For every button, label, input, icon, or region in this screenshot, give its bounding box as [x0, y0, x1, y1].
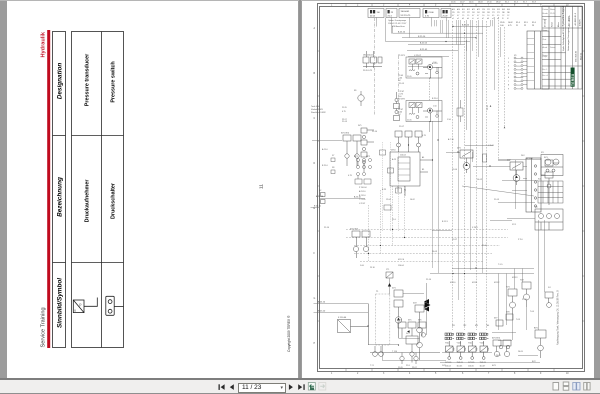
svg-text:Bezeichnung: Bezeichnung — [57, 177, 64, 217]
mid band extras — [465, 146, 493, 163]
svg-text:4: 4 — [508, 69, 509, 71]
svg-text:G: G — [314, 298, 316, 300]
svg-text:2: 2 — [508, 62, 509, 64]
svg-text:12.05: 12.05 — [500, 22, 505, 24]
pump link — [429, 78, 431, 101]
svg-text:8: 8 — [514, 373, 516, 375]
frame tick labels bottom — [331, 373, 569, 375]
svg-text:Ers. f.: Ers. f. — [543, 68, 548, 71]
svg-text:110.04.01: 110.04.01 — [401, 11, 411, 13]
svg-text:2: 2 — [357, 373, 359, 375]
svg-text:X5: X5 — [535, 207, 538, 209]
svg-text:14.02: 14.02 — [508, 22, 513, 24]
svg-text:1.00: 1.00 — [500, 25, 504, 27]
svg-text:X 24.0: X 24.0 — [472, 227, 479, 229]
svg-text:P 110.04: P 110.04 — [359, 187, 366, 189]
terminal box X1 — [527, 31, 549, 89]
wires to blocks — [498, 160, 541, 219]
svg-text:B: B — [314, 73, 316, 75]
svg-text:22.07: 22.07 — [412, 367, 417, 369]
left connector at wire 198 — [321, 193, 326, 204]
svg-text:Blatt 11: Blatt 11 — [579, 52, 582, 60]
svg-text:d7: d7 — [482, 18, 484, 20]
svg-text:TEREX: TEREX — [571, 73, 575, 86]
lower-left valve group — [352, 231, 370, 258]
svg-text:T 110: T 110 — [392, 351, 398, 353]
svg-text:K 110.04: K 110.04 — [338, 317, 347, 319]
svg-text:25.10: 25.10 — [370, 267, 375, 269]
svg-text:A 25.10: A 25.10 — [462, 24, 470, 27]
svg-text:S2: S2 — [319, 190, 321, 192]
svg-text:f3: f3 — [502, 18, 503, 20]
central manifold complex — [390, 131, 432, 196]
svg-text:Sinnbild/Symbol: Sinnbild/Symbol — [57, 278, 64, 328]
svg-text:Norm: Norm — [543, 29, 548, 32]
svg-text:X8: X8 — [332, 167, 334, 169]
svg-text:Urspr.: Urspr. — [543, 55, 549, 58]
junction dots central — [368, 144, 433, 254]
svg-text:9V1: 9V1 — [544, 157, 548, 159]
svg-text:X1.3: X1.3 — [514, 2, 518, 4]
svg-text:P 2.0: P 2.0 — [518, 239, 524, 241]
svg-text:25.09: 25.09 — [443, 16, 449, 18]
svg-text:21: 21 — [516, 25, 518, 27]
svg-text:M 110: M 110 — [450, 282, 456, 284]
first page button — [219, 384, 305, 390]
svg-text:24.01: 24.01 — [469, 2, 474, 4]
svg-text:7: 7 — [488, 373, 490, 375]
svg-text:1.50: 1.50 — [447, 119, 452, 121]
svg-text:A26: A26 — [457, 8, 460, 11]
title block — [542, 6, 582, 89]
svg-text:110.04: 110.04 — [400, 155, 406, 157]
svg-text:6V4: 6V4 — [398, 320, 401, 322]
svg-text:X1: X1 — [514, 55, 517, 57]
svg-text:D: D — [314, 163, 316, 165]
svg-text:A 25.10: A 25.10 — [354, 195, 362, 198]
svg-text:2V10: 2V10 — [391, 150, 395, 152]
svg-text:Datum: Datum — [543, 8, 549, 11]
svg-text:X1.5: X1.5 — [524, 22, 528, 24]
svg-text:1.2: 1.2 — [507, 15, 509, 17]
pump stubs to left labels — [399, 75, 405, 116]
svg-text:B 11.3: B 11.3 — [442, 221, 449, 223]
svg-text:280: 280 — [502, 12, 505, 14]
svg-text:AC 100/4L: AC 100/4L — [568, 15, 571, 27]
svg-text:A71: A71 — [472, 8, 475, 11]
svg-text:Copyright 2009 TEREX ®: Copyright 2009 TEREX ® — [287, 315, 291, 352]
svg-text:T1: T1 — [376, 291, 379, 293]
svg-text:6: 6 — [508, 77, 509, 79]
svg-text:A72: A72 — [477, 8, 480, 11]
svg-text:e1: e1 — [492, 18, 494, 20]
svg-text:D-8275: D-8275 — [580, 19, 582, 26]
svg-text:A 21.0: A 21.0 — [322, 148, 329, 151]
svg-text:7V2: 7V2 — [520, 280, 525, 282]
svg-text:14.02: 14.02 — [477, 179, 483, 181]
dashed vertical connectors into band — [369, 186, 405, 262]
svg-text:21.05: 21.05 — [494, 199, 500, 201]
svg-text:5: 5 — [435, 373, 437, 375]
internal rows in X1 box — [527, 39, 534, 81]
prev page button — [230, 384, 234, 390]
svg-text:21.06: 21.06 — [429, 12, 435, 14]
svg-text:M 111: M 111 — [472, 282, 478, 284]
scattered wire labels — [342, 62, 551, 367]
svg-text:B 25.10: B 25.10 — [418, 36, 426, 38]
svg-text:M1: M1 — [452, 325, 456, 327]
layout icon: continuous — [563, 382, 569, 390]
layout icon: continuous facing — [584, 383, 590, 391]
svg-text:A: A — [314, 27, 316, 30]
svg-text:271: 271 — [497, 12, 500, 14]
svg-text:3V1 3V2: 3V1 3V2 — [341, 133, 350, 135]
component chain on dash line — [394, 92, 400, 121]
svg-text:9: 9 — [540, 373, 542, 375]
svg-text:a2: a2 — [457, 18, 459, 20]
right schematic page — [302, 0, 594, 378]
svg-text:27.10: 27.10 — [522, 299, 527, 301]
title block rotated texts — [562, 26, 582, 62]
svg-text:p: p — [80, 303, 82, 307]
svg-text:5V2: 5V2 — [413, 303, 417, 305]
svg-text:12.04: 12.04 — [452, 169, 458, 171]
svg-text:6V1 6V2: 6V1 6V2 — [492, 338, 501, 340]
svg-text:12.05: 12.05 — [550, 13, 555, 15]
svg-text:Unterwagen Versorgung: Unterwagen Versorgung — [567, 27, 570, 51]
svg-text:10: 10 — [566, 373, 569, 375]
svg-text:P2 1P2: P2 1P2 — [398, 99, 406, 101]
svg-text:M10 Anschluss: M10 Anschluss — [392, 25, 405, 28]
svg-text:7.04: 7.04 — [530, 311, 535, 313]
svg-text:X1 22 0.75: X1 22 0.75 — [401, 15, 412, 17]
svg-text:F: F — [314, 253, 316, 255]
svg-text:Bearb.: Bearb. — [543, 12, 549, 15]
feeder vertical right of pumps — [466, 40, 468, 130]
svg-text:Druckschalter: Druckschalter — [111, 182, 117, 219]
svg-text:241: 241 — [477, 12, 480, 14]
svg-text:b1: b1 — [400, 96, 402, 98]
svg-text:Service Training: Service Training — [41, 307, 47, 347]
svg-text:9: 9 — [508, 88, 509, 90]
svg-text:A 21.0: A 21.0 — [432, 62, 439, 65]
svg-text:Druckaufnehmer: Druckaufnehmer — [85, 179, 91, 223]
svg-text:215: 215 — [457, 12, 460, 14]
svg-text:a1: a1 — [452, 18, 454, 20]
svg-text:1S1 110.04: 1S1 110.04 — [363, 55, 373, 57]
svg-text:L 22.07: L 22.07 — [359, 203, 365, 205]
svg-text:5: 5 — [508, 73, 509, 75]
svg-text:110.05: 110.05 — [457, 366, 463, 368]
svg-text:E04: E04 — [507, 9, 510, 11]
svg-text:21.05: 21.05 — [398, 367, 403, 369]
svg-text:25.10: 25.10 — [487, 105, 489, 110]
extra mid-right short wires — [432, 152, 527, 231]
connector block A (X3) — [541, 155, 563, 176]
svg-text:0.7: 0.7 — [452, 15, 454, 17]
svg-text:110.06: 110.06 — [468, 366, 474, 368]
svg-text:110.04: 110.04 — [398, 265, 404, 267]
svg-text:U: U — [74, 309, 76, 313]
svg-text:B 21.0: B 21.0 — [432, 98, 439, 100]
frame tick labels top — [331, 5, 569, 7]
TEREX green logo bar — [571, 68, 575, 87]
valve 2V1 — [460, 150, 473, 173]
dashed horizontal bus band — [346, 230, 508, 262]
svg-text:B11: B11 — [462, 9, 465, 11]
svg-text:28.02: 28.02 — [496, 2, 501, 4]
svg-text:24.01: 24.01 — [482, 245, 488, 247]
svg-text:B1: B1 — [422, 169, 424, 171]
notes text block upper-middle — [388, 19, 406, 28]
terminal box X2 — [526, 158, 541, 212]
svg-text:D14: D14 — [492, 9, 495, 11]
svg-text:0.75: 0.75 — [342, 111, 346, 113]
junction dots — [367, 26, 490, 346]
svg-text:Designation: Designation — [57, 63, 64, 100]
svg-text:5V1: 5V1 — [392, 288, 396, 290]
solenoid valve 1V5 — [468, 333, 477, 364]
svg-text:A 25: A 25 — [392, 158, 397, 161]
svg-text:227: 227 — [462, 12, 465, 14]
svg-text:6V7: 6V7 — [494, 318, 497, 320]
svg-text:8V2: 8V2 — [532, 361, 536, 363]
svg-text:Option: Zusatzpumpe: Option: Zusatzpumpe — [388, 19, 406, 22]
svg-text:Tank 400 l: Tank 400 l — [311, 106, 321, 108]
small box w X — [338, 304, 369, 346]
table header column box — [53, 32, 66, 348]
svg-text:263: 263 — [482, 12, 485, 14]
svg-text:Name: Name — [550, 9, 555, 11]
svg-text:1.00: 1.00 — [360, 265, 365, 267]
cluster right of X2 — [541, 160, 559, 205]
svg-text:Pressure switch: Pressure switch — [111, 61, 117, 102]
svg-text:Schm: Schm — [552, 22, 554, 27]
next view icon (disabled) — [319, 383, 326, 391]
svg-text:Gepr.: Gepr. — [543, 18, 548, 21]
svg-text:22.0: 22.0 — [406, 365, 411, 367]
svg-text:26.03: 26.03 — [478, 2, 483, 4]
svg-text:1: 1 — [331, 373, 333, 375]
svg-text:110.04 / 21.05 / 22.07: 110.04 / 21.05 / 22.07 — [388, 23, 406, 25]
note text block — [311, 106, 326, 114]
svg-text:b3: b3 — [462, 18, 464, 20]
svg-text:11: 11 — [259, 184, 264, 189]
table content box — [72, 32, 124, 348]
svg-text:22.07: 22.07 — [399, 126, 405, 128]
svg-text:Hydraulik: Hydraulik — [41, 31, 47, 57]
svg-text:A 25.10: A 25.10 — [398, 30, 406, 33]
svg-text:215: 215 — [452, 12, 455, 14]
svg-text:14.02: 14.02 — [410, 199, 415, 201]
svg-text:5V3: 5V3 — [406, 333, 409, 335]
svg-text:7.03: 7.03 — [516, 319, 521, 321]
svg-text:4: 4 — [409, 373, 411, 375]
diagonal wire — [462, 186, 534, 196]
svg-text:22.07: 22.07 — [460, 2, 465, 4]
svg-text:C 2.05: C 2.05 — [488, 145, 495, 147]
svg-text:b2: b2 — [399, 114, 401, 116]
pin pairs — [514, 57, 523, 89]
svg-text:0.75: 0.75 — [508, 25, 512, 27]
svg-text:0.7: 0.7 — [477, 15, 479, 17]
left stack cluster — [361, 128, 374, 172]
svg-text:0.7: 0.7 — [457, 15, 459, 17]
symbol: pressure switch — [106, 296, 124, 315]
svg-text:X2.1: X2.1 — [512, 224, 517, 226]
svg-text:8V1: 8V1 — [534, 328, 539, 330]
svg-text:d8: d8 — [487, 18, 489, 20]
drawing frame — [318, 4, 585, 372]
svg-text:Aend.: Aend. — [543, 46, 548, 49]
svg-text:M 113: M 113 — [512, 277, 518, 279]
svg-text:f4: f4 — [507, 18, 508, 20]
svg-text:0.7: 0.7 — [472, 15, 474, 17]
svg-text:B 25: B 25 — [382, 189, 387, 191]
extra bottom-center density — [373, 272, 418, 363]
svg-text:C21: C21 — [487, 9, 490, 11]
svg-text:3V5: 3V5 — [358, 125, 361, 127]
svg-text:A 25.10: A 25.10 — [318, 300, 326, 303]
svg-text:C: C — [314, 118, 316, 120]
frame tick labels left — [314, 27, 316, 345]
filter block cluster — [363, 51, 382, 68]
label group t5 terminal — [441, 9, 451, 18]
svg-text:1.0: 1.0 — [482, 15, 484, 17]
svg-text:B 25.10: B 25.10 — [314, 205, 322, 207]
svg-text:0.5: 0.5 — [492, 15, 494, 17]
svg-text:A25: A25 — [452, 8, 455, 11]
svg-text:25.10: 25.10 — [372, 131, 378, 133]
connector block B (X4 grid) — [538, 181, 563, 203]
bottom-right extra wires — [492, 269, 538, 356]
svg-text:Hydraulikschaltplan: Hydraulikschaltplan — [562, 5, 565, 26]
svg-text:X1.6: X1.6 — [532, 22, 536, 24]
svg-text:227: 227 — [467, 12, 470, 14]
connecting rail — [442, 352, 492, 354]
solenoid valve 1V4 — [457, 333, 466, 364]
label group t4 terminal — [423, 9, 439, 18]
frame tick marks — [317, 4, 584, 371]
svg-text:21 05: 21 05 — [342, 107, 347, 109]
svg-text:A 7.10: A 7.10 — [448, 138, 455, 141]
svg-text:B12: B12 — [467, 9, 470, 11]
svg-text:6V3: 6V3 — [492, 365, 496, 367]
check valve triangles — [424, 299, 429, 304]
svg-text:Hydr.-Schaltplan AC 100: Hydr.-Schaltplan AC 100 — [562, 26, 565, 51]
svg-text:1T1: 1T1 — [386, 269, 389, 271]
filter circle S1 — [358, 91, 364, 106]
svg-text:26.03: 26.03 — [518, 351, 523, 353]
svg-text:Pressure transducer: Pressure transducer — [85, 53, 91, 106]
svg-text:0.75: 0.75 — [348, 175, 353, 177]
svg-text:6V6: 6V6 — [418, 320, 421, 322]
svg-text:21 05: 21 05 — [370, 16, 376, 18]
svg-text:A 25.10: A 25.10 — [359, 190, 365, 193]
left check assembly near bottom — [425, 302, 431, 308]
svg-text:X1.4: X1.4 — [516, 22, 520, 24]
svg-text:X1.8: X1.8 — [532, 2, 536, 4]
svg-text:T 21.05: T 21.05 — [359, 199, 365, 201]
second label band — [500, 22, 536, 27]
wires pins to box — [523, 59, 527, 85]
svg-text:X1.7: X1.7 — [523, 2, 527, 4]
extra cluster bottom-center-2 — [370, 322, 440, 364]
inter-page gap shading — [299, 0, 301, 378]
svg-text:X7: X7 — [332, 155, 334, 157]
svg-text:2V1: 2V1 — [457, 148, 462, 150]
svg-text:B 25.10: B 25.10 — [318, 311, 326, 313]
second dash-dot boundary — [398, 56, 400, 115]
svg-text:Nachtragung Tank, Versorgung D: Nachtragung Tank, Versorgung DU 12.05.09… — [557, 290, 560, 345]
svg-text:8: 8 — [508, 85, 509, 87]
top dense label columns — [452, 8, 510, 20]
svg-text:D15: D15 — [497, 9, 500, 11]
svg-text:110.04: 110.04 — [445, 366, 451, 368]
header red rule (rotated page) — [47, 30, 50, 348]
svg-text:B 21.0: B 21.0 — [322, 165, 329, 167]
svg-text:241: 241 — [472, 12, 475, 14]
svg-text:21.05: 21.05 — [342, 121, 348, 123]
svg-text:21.0: 21.0 — [392, 219, 397, 221]
svg-text:3: 3 — [508, 66, 509, 68]
svg-text:271: 271 — [492, 12, 495, 14]
svg-text:1.2: 1.2 — [502, 15, 504, 17]
svg-text:22.07: 22.07 — [452, 239, 458, 241]
svg-text:110: 110 — [377, 12, 381, 14]
svg-text:B 21.05: B 21.05 — [420, 49, 428, 51]
svg-text:P1 1P1: P1 1P1 — [398, 55, 406, 57]
svg-text:263: 263 — [487, 12, 490, 14]
measuring points cluster — [355, 159, 372, 185]
svg-text:c6: c6 — [477, 18, 479, 20]
drop lines from terminals — [377, 18, 447, 38]
svg-text:A1: A1 — [422, 156, 424, 159]
label group t3 terminal — [399, 9, 420, 18]
svg-text:1.0: 1.0 — [487, 15, 489, 17]
svg-text:H: H — [314, 343, 316, 345]
svg-text:Meier: Meier — [558, 22, 560, 27]
label group t1 terminal — [368, 9, 384, 18]
svg-text:C20: C20 — [482, 9, 485, 11]
pump P2 — [406, 101, 442, 123]
svg-text:S1: S1 — [354, 90, 357, 92]
svg-text:22: 22 — [524, 25, 526, 27]
svg-text:25.10: 25.10 — [426, 279, 432, 281]
previous view icon — [308, 383, 315, 391]
svg-text:6V5: 6V5 — [408, 320, 411, 322]
svg-text:21.05: 21.05 — [399, 83, 405, 85]
svg-text:Zust.: Zust. — [543, 38, 548, 41]
svg-text:Vorlauf DN25: Vorlauf DN25 — [311, 109, 324, 111]
svg-text:1: 1 — [508, 58, 509, 60]
svg-text:M3: M3 — [475, 325, 479, 327]
svg-text:0.5: 0.5 — [497, 15, 499, 17]
svg-text:21.05: 21.05 — [451, 2, 456, 4]
title block top text rows — [545, 5, 582, 27]
solenoid valve 1V6 — [480, 333, 489, 364]
svg-text:24.01: 24.01 — [496, 355, 501, 357]
small box cluster right of pumps — [457, 100, 463, 122]
valve 2V2 — [510, 162, 523, 185]
svg-text:25.10: 25.10 — [324, 227, 330, 229]
svg-text:Datum: Datum — [550, 46, 556, 49]
svg-text:X4: X4 — [548, 287, 551, 289]
svg-text:A 21.05: A 21.05 — [420, 42, 428, 45]
bottom toolbar — [0, 378, 600, 394]
svg-text:M4: M4 — [487, 325, 491, 327]
svg-text:c5: c5 — [472, 18, 474, 20]
